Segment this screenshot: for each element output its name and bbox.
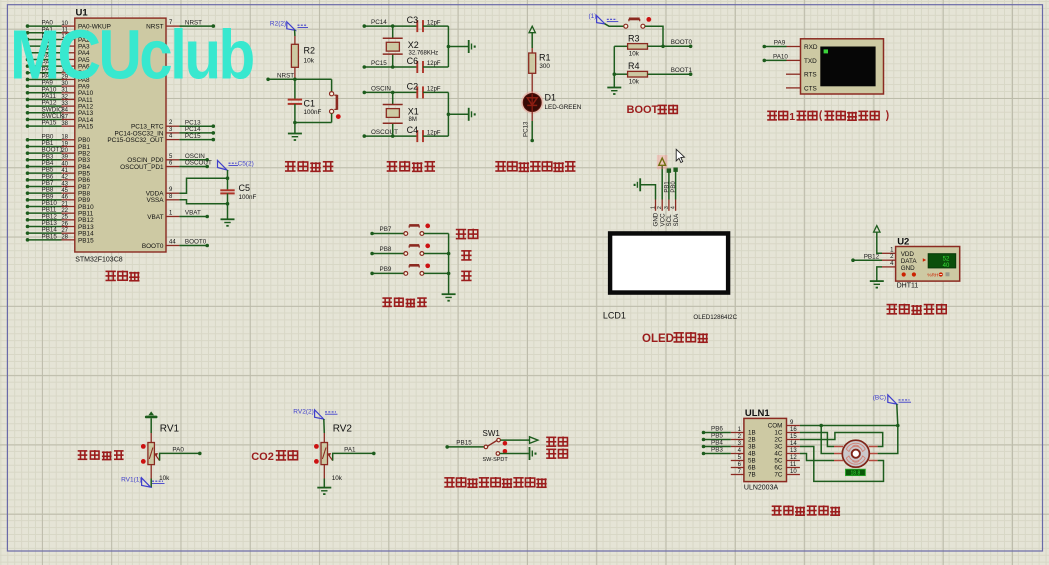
wire net PA8 (pin 29) [26,78,30,82]
svg-text:7B: 7B [748,472,756,479]
wire 4C to motor left-bottom [800,454,834,461]
LCD1 OLED display panel [608,231,730,295]
wire net OSCIN [363,91,367,95]
LED D1 LED-GREEN [522,92,542,112]
svg-text:PA15: PA15 [42,120,57,127]
wire net PB4 [702,445,706,449]
RV2 wiper to PA1 [328,454,333,461]
wire net PA11 (pin 32) [26,98,30,102]
svg-text:DHT11: DHT11 [897,283,919,290]
svg-text:SW-SPDT: SW-SPDT [483,457,509,463]
svg-text:R2: R2 [304,46,316,56]
svg-text:C3: C3 [407,15,419,25]
svg-text:6C: 6C [774,465,783,472]
svg-text:RV2: RV2 [333,424,353,435]
resistor R3 10k [614,45,627,47]
node junction X2 right [447,45,451,49]
wire net PB4 (pin 40) [26,165,30,169]
svg-text:46: 46 [61,195,68,201]
ULN1 output pin 12 (5C) [787,460,800,462]
svg-text:R4: R4 [628,61,640,71]
svg-text:PB15: PB15 [456,440,472,447]
svg-text:OLED12864I2C: OLED12864I2C [693,314,737,321]
ULN1 output pin 15 (2C) [787,439,800,441]
svg-text:(BC): (BC) [873,394,886,401]
wire net BOOT1 (pin 20) [26,151,30,155]
node junction X2 bottom [391,65,395,69]
svg-text:RV1: RV1 [160,424,180,435]
caption 晶振电路 [387,161,435,171]
svg-text:10k: 10k [629,78,640,85]
svg-text:(1): (1) [589,13,597,20]
pin BOOT0 (44) [166,245,179,247]
pin VBAT (1) [166,216,179,218]
svg-text:CO2: CO2 [251,451,274,463]
wire net PB7 (pin 43) [26,185,30,189]
svg-text:100nF: 100nF [304,109,322,116]
OLED connector pin VCC with power symbol [661,200,663,211]
svg-text:2C: 2C [774,437,783,444]
capacitor C5 [227,178,229,190]
svg-text:OSCIN: OSCIN [371,85,391,92]
pin PC14 (3) [166,132,179,134]
svg-text:PB9: PB9 [380,266,392,273]
wire net OSCOUT [363,134,367,138]
svg-text:PA15: PA15 [78,124,94,131]
caption 串口1窗口（模拟手机端） [767,111,787,121]
wire key bus vertical [448,234,450,294]
mouse cursor [676,149,684,162]
svg-text:1: 1 [890,247,894,253]
svg-text:PB5: PB5 [711,433,723,440]
svg-text:C5: C5 [239,183,251,193]
wire net PA15 (pin 38) [26,124,30,128]
wire COM to motor right-middle [878,426,898,454]
virtual terminal box [801,39,884,94]
svg-text:1: 1 [651,206,657,209]
OLED connector pin SDA net PB0 [675,200,677,211]
terminal screen [820,47,875,87]
svg-text:BOOT0: BOOT0 [142,243,164,250]
wire probe to R2 [294,30,296,36]
caption 雨量调节 [78,450,124,460]
svg-text:40: 40 [61,161,68,167]
svg-text:VBAT: VBAT [147,214,163,221]
wire net PB14 (pin 27) [26,231,30,235]
wire probe to button [605,24,624,27]
svg-text:5: 5 [169,154,173,160]
svg-text:18.8: 18.8 [851,470,861,476]
ULN1 input pin 2 (2B) [731,439,744,441]
svg-text:PC15-OSC32_OUT: PC15-OSC32_OUT [107,137,163,144]
ground below key bus [442,293,456,295]
wire to ground [227,204,229,219]
svg-text:2: 2 [169,120,173,126]
svg-text:1: 1 [169,211,173,217]
ULN1 COM pin 9 [787,425,800,427]
push button PB9 [404,272,408,276]
svg-text:37: 37 [61,114,68,120]
svg-text:12pF: 12pF [427,20,441,26]
node junction C1-ground [293,121,297,125]
pin NRST (7) net NRST [166,25,179,27]
svg-text:14: 14 [790,441,797,447]
svg-text:52: 52 [943,256,950,262]
wire net PA5 (pin 15) [26,58,30,62]
svg-text:PB1: PB1 [664,181,670,193]
svg-text:100nF: 100nF [239,194,257,201]
svg-text:20: 20 [61,148,68,154]
ground right of SW1 [529,447,531,460]
wire net PA4 (pin 14) [26,51,30,55]
RV1 wiper to PA0 [155,454,160,461]
node junction X2 top [391,24,395,28]
caption 温湿度模块 [887,304,947,314]
capacitor C6 12pF [416,61,418,73]
svg-text:3C: 3C [774,444,783,451]
node junction PC13 [530,139,534,143]
wire net PB9 (pin 46) [26,198,30,202]
output terminal arrow 无人 [530,437,538,444]
ground left of OLED pins [639,178,641,191]
svg-text:MCUclub: MCUclub [10,15,254,93]
wire right side of X2 [447,26,449,67]
svg-text:45: 45 [61,188,68,194]
svg-text:ULN2003A: ULN2003A [744,484,779,491]
svg-text:40: 40 [943,263,950,269]
svg-text:%RH: %RH [927,273,939,279]
wire 1C to motor left-top [800,433,834,447]
pin VSSA (8) wire to C5 ground node [166,199,179,201]
svg-text:18: 18 [61,135,68,141]
svg-text:5C: 5C [774,458,783,465]
capacitor C1 100nF [294,79,296,99]
svg-text:4C: 4C [774,451,783,458]
push button reset switch [331,79,333,91]
svg-text:PB12: PB12 [864,254,880,261]
capacitor C3 12pF [416,20,418,32]
svg-text:R3: R3 [628,33,640,43]
svg-text:BOOT0: BOOT0 [671,39,693,46]
node junction X1 bottom [391,134,395,138]
svg-text:2: 2 [890,254,894,260]
svg-text:COM: COM [768,423,783,430]
wire net PB6 (pin 42) [26,178,30,182]
node junction COM-left [819,424,823,428]
svg-text:SDA: SDA [673,213,680,227]
push button PB8 [404,252,408,256]
svg-text:PA10: PA10 [773,53,788,60]
svg-text:OSCOUT: OSCOUT [185,160,212,167]
svg-text:LED-GREEN: LED-GREEN [545,104,582,111]
svg-text:4B: 4B [748,451,756,458]
svg-text:8M: 8M [409,117,417,123]
svg-text:BOOT: BOOT [627,104,659,116]
RV1 bottom probe RV1(1) [150,465,152,479]
wire net PB7 [370,232,374,236]
RV2 interactive dots [314,444,319,449]
svg-text:RTS: RTS [804,72,817,79]
svg-text:3: 3 [169,127,173,133]
svg-text:PB3: PB3 [711,447,723,454]
svg-text:1B: 1B [748,430,756,437]
svg-text:PC14: PC14 [371,19,387,26]
svg-text:42: 42 [61,175,68,181]
svg-text:27: 27 [61,228,68,234]
wire net PB8 [370,252,374,256]
wire net SWCLK (pin 37) [26,118,30,122]
pin VDDA (9) wire to C5 node [166,192,179,194]
ULN1 input pin 7 (7B) [731,474,744,476]
ULN1 input pin 4 (4B) [731,453,744,455]
svg-text:10k: 10k [332,475,343,482]
svg-text:PC15: PC15 [371,60,387,67]
push button BOOT [624,24,628,28]
svg-text:2: 2 [657,206,663,209]
svg-text:PB4: PB4 [711,440,723,447]
svg-text:R1: R1 [539,53,551,63]
svg-text:PB15: PB15 [78,237,94,244]
svg-text:16: 16 [790,427,797,433]
wire net PA3 (pin 13) [26,44,30,48]
svg-text:12: 12 [790,455,797,461]
caption 加 [461,251,471,261]
svg-text:OLED: OLED [642,333,674,345]
OLED connector pin GND [655,200,657,211]
wire power to VDD [877,232,882,253]
svg-text:3: 3 [664,206,670,209]
svg-text:PB0: PB0 [671,181,677,193]
svg-text:12pF: 12pF [427,87,441,93]
wire net PB3 (pin 39) [26,158,30,162]
node junction BOOT0 [661,45,665,49]
svg-text:STM32F103C8: STM32F103C8 [75,257,123,264]
wire COM bus [800,425,898,427]
svg-text:3B: 3B [748,444,756,451]
op-amp U1 body (STM32F103C8 MCU) [75,18,166,252]
ULN1 input pin 6 (6B) [731,467,744,469]
caption 人体热释电感应模块 [444,477,546,487]
svg-text:25: 25 [61,215,68,221]
svg-text:11: 11 [790,462,797,468]
ULN1 input pin 3 (3B) [731,446,744,448]
pin OSCIN_PD0 (5) [166,159,179,161]
svg-text:12pF: 12pF [427,61,441,67]
svg-text:10k: 10k [159,475,170,482]
svg-text:VSSA: VSSA [146,197,164,204]
svg-text:1C: 1C [774,430,783,437]
svg-text:300: 300 [539,63,550,70]
ULN1 output pin 13 (4C) [787,453,800,455]
svg-text:R2(2): R2(2) [270,20,286,27]
RV1 interactive dots [141,444,146,449]
resistor R1 300 [531,33,533,48]
wire net PB11 (pin 22) [26,211,30,215]
node junction X1 top [391,91,395,95]
power symbol above R1 [529,26,535,33]
svg-text:PC13: PC13 [523,121,530,137]
power symbol above U2 [874,226,880,233]
caption 减 [461,271,471,281]
switch SW1 SW-SPDT [484,445,488,449]
svg-text:1: 1 [789,111,795,123]
wire net PA12 (pin 33) [26,104,30,108]
svg-text:C1: C1 [304,99,316,109]
svg-text:4: 4 [890,261,894,267]
push button PB7 [404,232,408,236]
node junction R4 [613,72,617,76]
ground right of X1 [468,108,470,121]
svg-text:44: 44 [169,240,176,246]
wire net PB15 [445,445,449,449]
svg-text:VBAT: VBAT [185,210,201,217]
crystal X1 8M [392,92,394,104]
svg-text:39: 39 [61,155,68,161]
svg-text:10k: 10k [629,51,640,58]
sensor U2 DHT11 body [896,247,960,282]
pin PC13 (2) [166,125,179,127]
wire net PA0 (pin 10) [26,24,30,28]
svg-text:PC15: PC15 [185,133,201,140]
node junction key3 [447,272,451,276]
svg-text:PB6: PB6 [711,426,723,433]
svg-text:PA1: PA1 [344,447,356,454]
ULN1 input pin 5 (5B) [731,460,744,462]
pin PC15 (4) [166,139,179,141]
ground below C5 [221,218,235,220]
svg-text:BOOT1: BOOT1 [671,67,693,74]
ground right of X2 [468,40,470,53]
ground below C1 [294,123,296,134]
svg-text:RV1(1): RV1(1) [121,477,141,484]
wire R3 to R4 [613,46,615,74]
wire net SWDIO (pin 34) [26,111,30,115]
svg-text:5B: 5B [748,458,756,465]
svg-text:OSCOUT_PD1: OSCOUT_PD1 [120,164,164,171]
wire net PA6 (pin 16) [26,64,30,68]
wire net PA7 (pin 17) [26,71,30,75]
ground below R4 rail [613,74,615,87]
OLED connector pin SCL net PB1 [668,200,670,211]
svg-text:BOOT0: BOOT0 [185,239,207,246]
caption 设置 [456,229,478,239]
svg-text:C2: C2 [407,81,419,91]
wire to key bus [424,233,449,235]
node junction VDDA-C5 [226,176,230,180]
svg-text:CTS: CTS [804,85,817,92]
wire throw1 to output arrow [500,439,529,441]
caption 独立按键 [382,297,426,306]
caption 复位电路 [285,161,333,171]
svg-text:26: 26 [61,221,68,227]
node junction R2-C1 [293,78,297,82]
svg-text:9: 9 [169,187,173,193]
svg-text:PB7: PB7 [380,226,392,233]
svg-text:6: 6 [169,161,173,167]
caption 有人 [546,449,567,459]
resistor R2 10k [294,36,296,44]
svg-text:TXD: TXD [804,58,817,65]
svg-text:13: 13 [790,448,797,454]
svg-text:SW1: SW1 [483,429,501,438]
stepper speed readout [846,469,866,475]
U2 indicator icons [902,272,906,276]
pot RV1 10k [150,418,152,433]
wire net PB15 (pin 28) [26,238,30,242]
svg-text:41: 41 [61,168,68,174]
wire net PB6 [702,431,706,435]
svg-text:10: 10 [790,469,797,475]
svg-text:2B: 2B [748,437,756,444]
wire net PB10 (pin 21) [26,205,30,209]
wire to key bus [424,253,449,255]
svg-text:ULN1: ULN1 [745,408,771,419]
wire net PB0 (pin 18) [26,138,30,142]
svg-text:6B: 6B [748,465,756,472]
svg-text:X2: X2 [408,40,419,50]
U2 green LCD readout [928,254,956,268]
wire C1 bottom row [295,122,332,124]
wire net PB8 (pin 45) [26,191,30,195]
svg-text:C4: C4 [407,125,419,135]
wire net PA2 (pin 12) [26,38,30,42]
wire net PC14 [363,24,367,28]
node junction COM-right [896,424,900,428]
wire net PB5 (pin 41) [26,171,30,175]
svg-text:PA9: PA9 [774,39,786,46]
svg-text:LCD1: LCD1 [603,310,626,320]
svg-text:RXD: RXD [804,44,818,51]
svg-text:C6: C6 [407,56,419,66]
wire net PB5 [702,438,706,442]
driver ULN1 ULN2003A body [744,418,787,481]
svg-text:10k: 10k [304,58,315,65]
wire net PA10 (pin 31) [26,91,30,95]
capacitor C2 12pF [416,86,418,98]
wire net PB9 [370,272,374,276]
RV2 bottom ground [323,465,325,479]
wire net PB13 (pin 26) [26,225,30,229]
svg-text:PB15: PB15 [42,233,58,240]
svg-text:8: 8 [169,194,173,200]
ULN1 output pin 11 (6C) [787,467,800,469]
ULN1 input pin 1 (1B) [731,432,744,434]
wire C5 node [227,170,229,178]
stepper motor body [842,440,869,467]
svg-text:7C: 7C [774,472,783,479]
svg-text:GND: GND [901,265,915,272]
wire net PB12 (pin 25) [26,218,30,222]
wire right side of X1 [447,92,449,136]
caption 主芯片 [106,271,140,281]
svg-text:RV2(2): RV2(2) [293,408,313,415]
wire net PB1 (pin 19) [26,145,30,149]
svg-text:D1: D1 [545,93,557,103]
pot RV2 10k [323,419,326,433]
svg-text:32: 32 [61,94,68,100]
node junction X1 right [447,113,451,117]
caption 程序运行指示灯 [495,161,575,171]
crystal X2 32.768KHz [392,26,394,38]
svg-text:43: 43 [61,181,68,187]
wire net PA9 (pin 30) [26,84,30,88]
node junction VSSA-C5 [226,202,230,206]
caption 四项步进电机 [772,505,840,515]
svg-text:U2: U2 [897,236,909,247]
caption 无人 [546,437,567,447]
wire net PB3 [702,452,706,456]
wire LED to PC13 net [531,112,533,122]
